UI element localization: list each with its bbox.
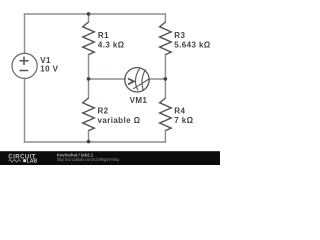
svg-text:7 kΩ: 7 kΩ bbox=[174, 116, 193, 125]
svg-text:VM1: VM1 bbox=[130, 96, 148, 105]
svg-text:R1: R1 bbox=[98, 31, 109, 40]
svg-text:R3: R3 bbox=[174, 31, 185, 40]
svg-text:10 V: 10 V bbox=[40, 65, 58, 74]
svg-text:variable Ω: variable Ω bbox=[98, 116, 141, 125]
svg-text:LAB: LAB bbox=[27, 158, 38, 164]
svg-text:5.643 kΩ: 5.643 kΩ bbox=[174, 41, 210, 50]
svg-text:4.3 kΩ: 4.3 kΩ bbox=[98, 41, 125, 50]
svg-text:R4: R4 bbox=[174, 106, 185, 115]
svg-text:http://circuitlab.com/c/29kg67: http://circuitlab.com/c/29kg67mkq bbox=[57, 157, 120, 162]
svg-text:R2: R2 bbox=[98, 106, 109, 115]
